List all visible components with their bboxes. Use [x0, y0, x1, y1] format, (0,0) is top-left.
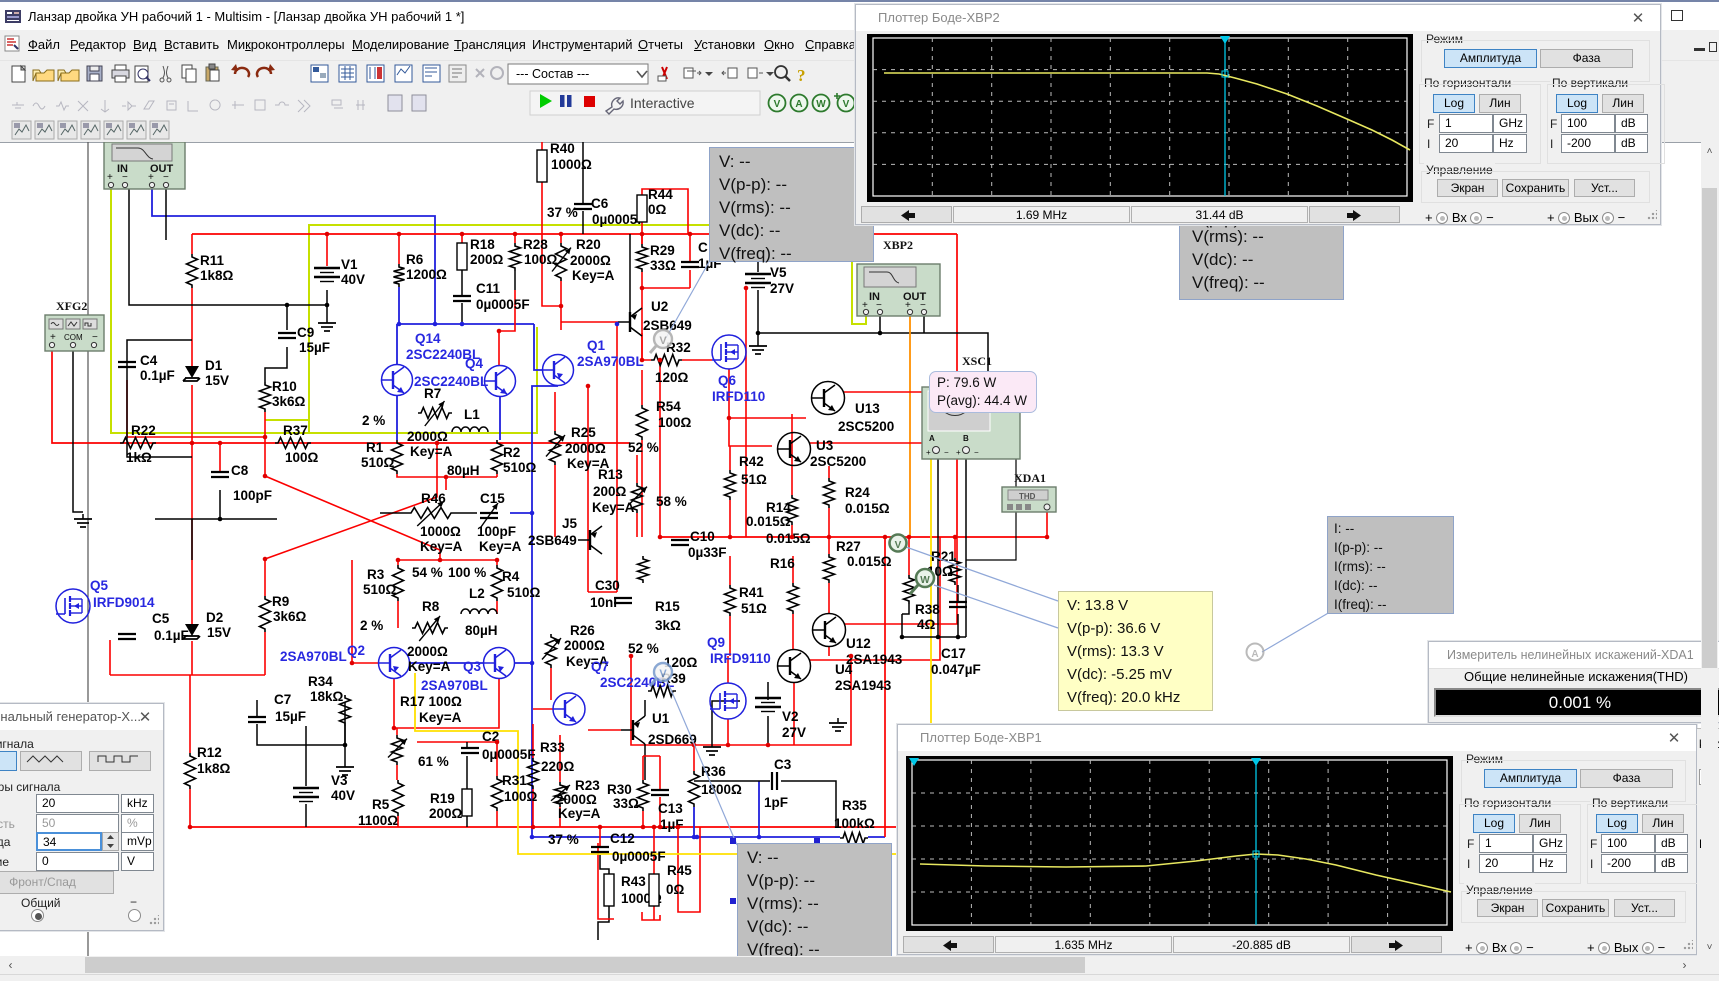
capacitor C17: [931, 602, 981, 677]
resistor R35: [834, 798, 875, 844]
svg-text:0.015Ω: 0.015Ω: [845, 501, 890, 516]
svg-text:Q4: Q4: [465, 356, 484, 371]
wire red y=592 link: [588, 591, 617, 593]
svg-text:Key=A: Key=A: [572, 268, 615, 283]
wire red XDA1 drop: [1046, 511, 1048, 537]
svg-text:2SC5200: 2SC5200: [810, 454, 866, 469]
variable capacitor C15: [477, 491, 522, 554]
zener D1: [183, 358, 229, 388]
wire orange XBP2 OUT+ drop: [909, 316, 911, 537]
wire red R46-C15 row: [380, 512, 408, 514]
svg-text:R12: R12: [197, 745, 222, 760]
wire black R18 to C11: [461, 270, 463, 296]
window distortion meter XDA1: [1428, 641, 1719, 723]
potentiometer R13: [592, 467, 687, 515]
resistor R14: [746, 495, 798, 529]
svg-text:120Ω: 120Ω: [655, 370, 689, 385]
probe tooltip pink power box: [929, 371, 1037, 413]
svg-text:54 %: 54 %: [412, 565, 443, 580]
wire red U2 base rail: [561, 321, 618, 323]
svg-text:R6: R6: [406, 252, 424, 267]
svg-text:15µF: 15µF: [275, 709, 306, 724]
instrument icon XBP1 bode plotter: [104, 142, 185, 189]
svg-text:1000Ω: 1000Ω: [420, 524, 461, 539]
svg-text:+: +: [50, 332, 56, 343]
svg-text:2SB649: 2SB649: [528, 533, 577, 548]
transistor U4: [778, 650, 892, 694]
potentiometer R46: [408, 491, 463, 554]
resistor R31: [492, 773, 538, 811]
svg-text:R7: R7: [424, 386, 441, 401]
wire red Q2/Q3 emitter rail y=702: [394, 678, 499, 728]
svg-text:1800Ω: 1800Ω: [701, 782, 742, 797]
svg-text:R16: R16: [770, 556, 795, 571]
resistor R38: [904, 575, 941, 632]
resistor R21: [927, 549, 961, 585]
svg-text:27V: 27V: [770, 281, 794, 296]
ground V5: [749, 341, 767, 354]
svg-text:R24: R24: [845, 485, 870, 500]
wire lime stub near R37: [265, 419, 310, 421]
battery V3: [293, 773, 355, 803]
svg-text:+: +: [956, 448, 961, 457]
potentiometer R26: [542, 623, 659, 669]
resistor R30: [607, 780, 649, 811]
svg-text:R25: R25: [571, 425, 596, 440]
svg-text:Q6: Q6: [718, 373, 737, 388]
wire red Q6 drop and U13 base row: [729, 369, 806, 418]
wire black U2 column: [629, 234, 631, 312]
wire black R28 bottom: [514, 271, 516, 290]
wire lime branch to XBP2 icon: [309, 225, 866, 433]
battery V2: [755, 698, 806, 740]
resistor R42: [725, 454, 768, 500]
sheet border: [87, 142, 89, 956]
resistor R6: [394, 252, 448, 287]
svg-text:R43: R43: [621, 874, 646, 889]
svg-text:0µ33F: 0µ33F: [688, 545, 727, 560]
svg-text:R26: R26: [570, 623, 595, 638]
wire red R44 top loop: [642, 189, 688, 234]
resistor R3: [363, 565, 443, 601]
wire blue Q1 base: [534, 324, 542, 370]
svg-text:Q1: Q1: [587, 338, 606, 353]
svg-text:52 %: 52 %: [628, 440, 659, 455]
probe green W at R38: [910, 569, 934, 594]
svg-text:100kΩ: 100kΩ: [834, 816, 875, 831]
wire red x=617 drop: [616, 324, 618, 592]
svg-text:R31: R31: [502, 773, 527, 788]
battery V1: [314, 257, 365, 287]
wire red R1/R2 bottoms: [397, 474, 497, 477]
wire red right V+ drop x=957: [956, 234, 958, 537]
probe magnifier V near R39: [650, 663, 672, 686]
capacitor C8: [211, 463, 272, 503]
ground V1: [318, 318, 336, 331]
resistor R28: [510, 237, 558, 271]
svg-text:C9: C9: [297, 325, 314, 340]
resistor R12: [185, 745, 231, 789]
svg-text:1100Ω: 1100Ω: [358, 813, 398, 828]
wire blue Q14 collector: [396, 324, 398, 364]
wire black C7/R34 row: [256, 700, 258, 717]
svg-text:C12: C12: [610, 831, 635, 846]
svg-text:2SA1943: 2SA1943: [846, 652, 903, 667]
wire lime from XBP1 icon IN down-right loop: [111, 189, 537, 433]
svg-text:1k8Ω: 1k8Ω: [197, 761, 231, 776]
svg-text:THD: THD: [1019, 492, 1036, 501]
capacitor C5: [681, 240, 722, 271]
junction dots red rail: [325, 232, 330, 237]
svg-text:1pF: 1pF: [764, 795, 788, 810]
wire black U1 column: [644, 700, 646, 716]
wire red R32 row y=360: [642, 333, 651, 360]
junction dots blue: [397, 322, 402, 327]
svg-text:0.047µF: 0.047µF: [931, 662, 981, 677]
wire red R25/R13 columns: [554, 392, 556, 431]
svg-text:R3: R3: [367, 567, 385, 582]
svg-text:200Ω: 200Ω: [593, 484, 627, 499]
wire red R23/R26 column: [550, 668, 552, 700]
wire red R41/R16/R27 drops: [729, 556, 731, 585]
svg-text:−: −: [944, 448, 949, 457]
wire red R29 bottom row to C5: [642, 287, 690, 289]
transistor Q7: [553, 659, 674, 725]
svg-text:200Ω: 200Ω: [429, 806, 463, 821]
wire yellow output sense loop: [415, 459, 931, 854]
svg-text:100Ω: 100Ω: [285, 450, 319, 465]
wire black XSC1 channel drops: [937, 459, 939, 637]
resistor R1: [361, 440, 403, 474]
svg-text:C15: C15: [480, 491, 505, 506]
wire red C4-D1 top: [127, 436, 265, 438]
svg-text:Key=A: Key=A: [558, 806, 601, 821]
wire blue output rail y=837: [533, 836, 840, 838]
resistor R37: [275, 423, 319, 465]
svg-text:R28: R28: [523, 237, 548, 252]
inductor L2: [461, 586, 498, 638]
wire red Q1 collector drop: [587, 386, 589, 592]
svg-text:4Ω: 4Ω: [917, 617, 936, 632]
svg-text:510Ω: 510Ω: [361, 455, 395, 470]
resistor R27: [824, 539, 892, 583]
svg-text:D1: D1: [205, 358, 223, 373]
svg-text:R23: R23: [575, 778, 600, 793]
transistor U1: [621, 711, 697, 747]
svg-text:Key=A: Key=A: [420, 539, 463, 554]
svg-text:+: +: [148, 172, 154, 183]
svg-text:R10: R10: [272, 379, 297, 394]
transistor U2: [618, 299, 692, 336]
svg-text:R30: R30: [607, 782, 632, 797]
wire red R3/R4 top rail: [398, 559, 497, 561]
wire red R36 column: [693, 745, 695, 771]
ground V2: [703, 742, 721, 755]
svg-text:40V: 40V: [341, 272, 365, 287]
svg-text:510Ω: 510Ω: [503, 460, 537, 475]
svg-text:R27: R27: [836, 539, 861, 554]
svg-text:18kΩ: 18kΩ: [310, 689, 344, 704]
wire red C5-D2 row y=675: [110, 674, 265, 676]
wire black C9 top lead: [286, 305, 288, 330]
wire red U13/U3 emitter column: [791, 414, 793, 495]
svg-text:IRFD110: IRFD110: [712, 389, 765, 404]
svg-text:V1: V1: [341, 257, 358, 272]
svg-text:V: V: [774, 99, 781, 110]
svg-text:3k6Ω: 3k6Ω: [272, 394, 306, 409]
probe tooltip yellow measurement box: [1058, 591, 1213, 711]
wire red R44 / R29 column: [641, 222, 643, 244]
svg-text:V5: V5: [770, 265, 787, 280]
svg-text:XDA1: XDA1: [1014, 471, 1046, 485]
svg-text:V: V: [895, 540, 902, 551]
svg-text:100pF: 100pF: [233, 488, 272, 503]
capacitor C9: [278, 325, 330, 355]
svg-text:IRFD9110: IRFD9110: [710, 651, 771, 666]
svg-text:Key=A: Key=A: [410, 444, 453, 459]
svg-text:Key=A: Key=A: [408, 659, 451, 674]
wire black XBP2 icon OUT- drop: [923, 314, 925, 333]
svg-text:0.015Ω: 0.015Ω: [847, 554, 892, 569]
svg-text:2 %: 2 %: [360, 618, 383, 633]
svg-text:100Ω: 100Ω: [524, 252, 558, 267]
svg-text:V2: V2: [782, 709, 799, 724]
svg-text:51Ω: 51Ω: [741, 472, 767, 487]
wire red R11 column x=192: [191, 234, 193, 254]
wire blue base rail y=324: [399, 323, 534, 325]
svg-text:100pF: 100pF: [477, 524, 516, 539]
potentiometer R39: [648, 655, 698, 697]
svg-text:R40: R40: [550, 142, 575, 156]
svg-text:200Ω: 200Ω: [470, 252, 504, 267]
wire red Q2 base row: [352, 662, 379, 664]
wire red Q7 base link: [533, 708, 553, 710]
transistor U5: [528, 516, 602, 554]
svg-text:J5: J5: [562, 516, 578, 531]
potentiometer R8: [360, 599, 451, 674]
svg-text:R19: R19: [430, 791, 455, 806]
wire red x=660 drop to C10: [659, 360, 661, 537]
resistor R9: [260, 594, 307, 632]
svg-text:37 %: 37 %: [547, 205, 578, 220]
svg-text:2000Ω: 2000Ω: [407, 644, 448, 659]
wire red C8 top: [219, 443, 221, 472]
wire blue Q2-Q3 link: [409, 662, 484, 664]
svg-text:33Ω: 33Ω: [613, 796, 639, 811]
wire red U13 collector to V+: [844, 391, 957, 393]
resistor R41: [725, 585, 768, 616]
wire black C4 bottom / D1 bottom: [127, 340, 192, 367]
svg-text:100 %: 100 %: [448, 565, 486, 580]
svg-text:+: +: [107, 172, 113, 183]
svg-text:C7: C7: [274, 692, 291, 707]
resistor R5: [358, 780, 404, 828]
svg-text:1200Ω: 1200Ω: [406, 267, 447, 282]
wire red R6 top / blue bottom: [398, 234, 400, 264]
svg-text:+: +: [926, 448, 931, 457]
wire black V5 column: [757, 234, 759, 272]
svg-text:C4: C4: [140, 353, 158, 368]
wire black C3 row: [694, 780, 770, 782]
svg-text:−: −: [163, 172, 169, 183]
wire blue Q14 emitter: [396, 396, 398, 440]
svg-text:C10: C10: [690, 529, 715, 544]
svg-text:R41: R41: [739, 585, 764, 600]
svg-text:C13: C13: [658, 801, 683, 816]
wire red Q9 column: [727, 656, 729, 683]
svg-text:2SA970BL: 2SA970BL: [421, 678, 488, 693]
wire red R20 bottom / R40 column: [560, 281, 562, 330]
vertical scrollbar: [1701, 143, 1718, 956]
svg-text:1k8Ω: 1k8Ω: [200, 268, 234, 283]
wire red bottom drops C12/R43/R45: [599, 827, 601, 847]
capacitor C3: [764, 757, 792, 810]
wire blue from XBP1 icon OUT to Q14 base rail: [152, 189, 435, 324]
svg-text:0.1µF: 0.1µF: [140, 368, 175, 383]
svg-text:R46: R46: [421, 491, 446, 506]
capacitor C6: [547, 196, 646, 227]
wire red U12/U4 collectors to V-: [845, 537, 957, 624]
wire red bottom riser x=678 loop: [598, 843, 614, 919]
svg-text:0µ0005F: 0µ0005F: [476, 297, 530, 312]
svg-text:R35: R35: [842, 798, 867, 813]
instrument icon XDA1 distortion meter: [1002, 471, 1056, 512]
svg-text:U4: U4: [835, 662, 853, 677]
svg-text:C17: C17: [941, 646, 966, 661]
svg-text:XBP2: XBP2: [883, 238, 913, 252]
wire red bottom rail y=827: [190, 826, 970, 828]
svg-text:100Ω: 100Ω: [658, 415, 692, 430]
mosfet Q6: [712, 335, 765, 404]
svg-text:L1: L1: [464, 407, 480, 422]
svg-text:U3: U3: [816, 438, 834, 453]
svg-text:0.015Ω: 0.015Ω: [746, 514, 791, 529]
wire black R38/C17 bottoms: [902, 604, 909, 614]
svg-text:R15: R15: [655, 599, 680, 614]
potentiometer R25: [546, 425, 659, 471]
wire red R54 column: [641, 370, 643, 405]
svg-text:61 %: 61 %: [418, 754, 449, 769]
svg-text:C6: C6: [591, 196, 609, 211]
transistor Q3: [421, 648, 515, 694]
transistor Q2: [280, 643, 410, 679]
svg-text:3k6Ω: 3k6Ω: [273, 609, 307, 624]
svg-text:V: V: [843, 99, 850, 110]
wire black XBP1 icon pins down: [129, 189, 175, 305]
wire red R33 column: [532, 724, 534, 758]
resistor R24: [824, 478, 890, 516]
svg-text:R34: R34: [308, 674, 333, 689]
svg-text:Key=A: Key=A: [592, 500, 635, 515]
transistor Q4: [414, 356, 516, 397]
svg-text:R36: R36: [701, 764, 726, 779]
transistor Q1: [543, 338, 644, 386]
wire black C9 bottom to R10: [265, 347, 287, 382]
transistor U3: [778, 433, 867, 470]
wire red output rail y=537: [660, 536, 1047, 538]
capacitor C10: [671, 529, 727, 560]
horizontal scrollbar: [0, 956, 1697, 974]
wire red X cross diagonal 1: [265, 476, 440, 560]
capacitor C11: [453, 281, 530, 312]
resistor R22: [120, 423, 156, 465]
wire red R30/C13 tops: [643, 755, 660, 757]
svg-text:33Ω: 33Ω: [650, 258, 676, 273]
svg-text:80µH: 80µH: [447, 463, 480, 478]
resistor R54: [637, 399, 692, 440]
svg-text:15V: 15V: [207, 625, 231, 640]
svg-text:0µ0005F: 0µ0005F: [482, 747, 536, 762]
svg-text:80µH: 80µH: [465, 623, 498, 638]
transistor Q14: [382, 331, 481, 396]
svg-text:Key=A: Key=A: [419, 710, 462, 725]
svg-text:R29: R29: [650, 243, 675, 258]
resistor R45: [649, 863, 692, 906]
svg-text:R37: R37: [283, 423, 308, 438]
svg-text:R9: R9: [272, 594, 289, 609]
svg-text:2000Ω: 2000Ω: [564, 638, 605, 653]
blue selection squares: [730, 838, 736, 844]
wire red X cross diagonal 2: [265, 443, 437, 559]
potentiometer R17: [388, 694, 462, 769]
svg-text:Key=A: Key=A: [479, 539, 522, 554]
svg-text:0Ω: 0Ω: [648, 202, 667, 217]
probe link lines light blue: [666, 262, 709, 338]
svg-text:R44: R44: [648, 187, 673, 202]
svg-text:R38: R38: [915, 602, 940, 617]
svg-text:10nF: 10nF: [590, 595, 622, 610]
svg-text:--- Состав ---: --- Состав ---: [516, 67, 589, 81]
wire red R21/R38 tops: [954, 537, 956, 558]
svg-text:R8: R8: [422, 599, 440, 614]
svg-text:52 %: 52 %: [628, 641, 659, 656]
svg-text:R54: R54: [656, 399, 681, 414]
capacitor C7: [248, 692, 306, 724]
wire black XFG2 COM to ground: [73, 351, 83, 512]
svg-text:B: B: [963, 434, 969, 443]
wire red V1 top: [326, 234, 328, 266]
wire black V5 to XBP2 icon: [758, 333, 988, 387]
capacitor C4: [118, 353, 175, 383]
instrument icon XBP2 bode plotter: [857, 238, 940, 316]
inductor L1: [447, 407, 488, 478]
svg-text:R42: R42: [739, 454, 764, 469]
wire blue C15 link: [510, 512, 532, 514]
capacitor C13: [651, 790, 684, 832]
window Bode plotter XBP2: [855, 4, 1661, 225]
svg-text:R20: R20: [576, 237, 601, 252]
wire black XSC1 B pin link: [966, 408, 1016, 560]
wire blue Q4 emitter: [499, 397, 501, 440]
svg-text:R2: R2: [503, 445, 520, 460]
svg-text:58 %: 58 %: [656, 494, 687, 509]
resistor R32: [651, 340, 691, 385]
ground U1: [829, 718, 847, 731]
svg-text:51Ω: 51Ω: [741, 601, 767, 616]
svg-text:2SA970BL: 2SA970BL: [577, 354, 644, 369]
ground XFG2: [74, 514, 92, 527]
wire red R40 top: [541, 142, 543, 150]
svg-text:A: A: [1251, 649, 1258, 660]
svg-text:R22: R22: [131, 423, 156, 438]
svg-text:L2: L2: [469, 586, 485, 601]
probe magnifier V near U2: [650, 330, 672, 353]
resistor R4: [448, 565, 541, 601]
svg-text:XFG2: XFG2: [56, 299, 87, 313]
resistor R33: [528, 740, 575, 789]
svg-text:2SA970BL: 2SA970BL: [280, 649, 347, 664]
capacitor C2: [461, 729, 536, 762]
